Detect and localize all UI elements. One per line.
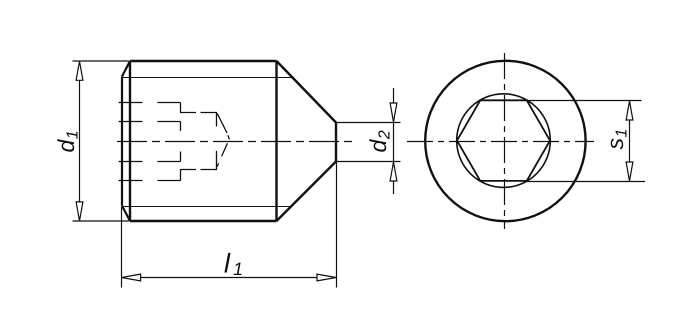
dimension l1 extension left [121, 207, 123, 288]
dimension d2 extension bottom [336, 161, 401, 163]
thread root line bottom [122, 206, 291, 208]
end view socket chamfer circle [457, 94, 551, 188]
dimension d1 arrow top [76, 61, 83, 80]
hidden drill cone bottom [217, 143, 227, 166]
hidden drill bore line top [180, 112, 217, 114]
dimension d1 extension top [73, 60, 130, 62]
dimension d1 line [79, 81, 81, 202]
dimension l1 arrow left [122, 274, 141, 281]
hidden drill bore end [216, 113, 218, 170]
left chamfer bottom [122, 206, 130, 221]
cone point top edge [277, 61, 337, 123]
thread root line top [122, 77, 292, 79]
dimension s1 arrow bottom [626, 162, 633, 181]
dimension s1 arrow top [626, 101, 633, 120]
hidden hex socket corner line top [119, 121, 181, 123]
hidden drill cone top [217, 114, 229, 140]
dimension d2 arrow top [390, 103, 397, 122]
label d1 [57, 132, 77, 152]
dimension l1 line [140, 277, 317, 279]
dimension d1 extension bottom [73, 220, 130, 222]
left face edge [121, 77, 123, 206]
label l1 [224, 253, 241, 275]
dimension s1 extension bottom [526, 181, 645, 183]
dimension d2 line [393, 88, 395, 194]
dimension l1 extension right [336, 162, 338, 288]
hidden hex socket end face [180, 103, 182, 181]
cone point bottom edge [277, 162, 337, 222]
label d2 [369, 131, 389, 152]
body outline (side view cylinder, thick lines) [130, 61, 277, 221]
end view horizontal centerline [407, 141, 594, 143]
end view outer circle [425, 61, 585, 221]
dimension l1 arrow right [317, 274, 336, 281]
hidden hex socket outer line bottom [119, 180, 181, 182]
hidden hex socket corner line bottom [119, 161, 181, 163]
hidden drill bore line bottom [180, 169, 217, 171]
end view hexagon socket [457, 100, 550, 181]
centerline side view [117, 141, 352, 143]
left chamfer top [122, 61, 130, 77]
hidden hex socket outer line top [119, 102, 181, 104]
label s1 [611, 130, 627, 149]
end view vertical centerline [504, 53, 506, 229]
cone tip face [335, 123, 337, 162]
dimension s1 extension top [527, 100, 642, 102]
dimension d1 arrow bottom [76, 202, 83, 221]
dimension s1 line [629, 120, 631, 163]
dimension d2 arrow bottom [390, 162, 397, 181]
dimension d2 extension top [336, 122, 401, 124]
